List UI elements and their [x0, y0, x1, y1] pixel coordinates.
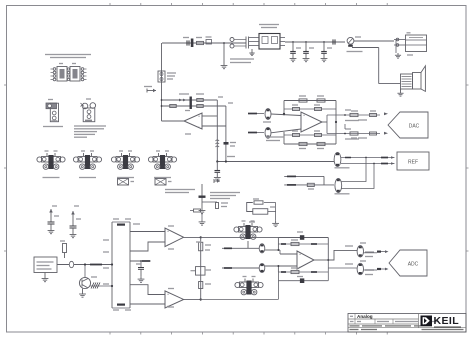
svg-text:+: + — [198, 115, 200, 119]
svg-text:+: + — [167, 230, 169, 234]
svg-text:REF: REF — [408, 160, 418, 166]
svg-text:+: + — [167, 292, 169, 296]
svg-text:+: + — [299, 253, 301, 257]
svg-text:KEIL: KEIL — [434, 315, 460, 327]
svg-text:DAC: DAC — [409, 124, 420, 130]
svg-text:ADC: ADC — [408, 262, 419, 268]
svg-text:Analog: Analog — [357, 314, 373, 319]
svg-text:+: + — [303, 114, 305, 118]
